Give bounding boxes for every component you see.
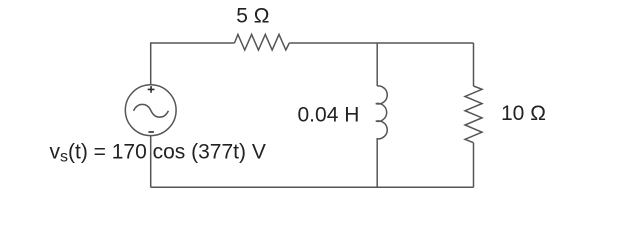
source sine wave: [134, 104, 169, 117]
resistor R2 (10 ohm) vertical zigzag: [465, 86, 482, 143]
svg-text:5 Ω: 5 Ω: [236, 5, 269, 28]
svg-text:10 Ω: 10 Ω: [501, 102, 546, 125]
wire right vertical lower: [473, 143, 475, 188]
wire middle branch lower: [376, 140, 378, 187]
inductor L1 (0.04 H) coil: [376, 86, 387, 140]
wire right vertical upper: [473, 43, 475, 86]
source plus sign: [148, 86, 155, 93]
source minus sign: [148, 131, 154, 133]
wire top-right segment: [289, 42, 473, 44]
svg-text:0.04 H: 0.04 H: [298, 103, 360, 126]
svg-text:vs(t) = 170 cos (377t) V: vs(t) = 170 cos (377t) V: [50, 140, 266, 165]
resistor R1 (5 ohm) zigzag: [235, 34, 290, 50]
wire bottom: [151, 186, 474, 188]
wire left vertical upper: [150, 42, 152, 85]
wire left vertical lower: [150, 135, 152, 187]
wire top-left segment: [151, 42, 235, 44]
source VS circle: [125, 85, 176, 136]
wire middle branch upper: [376, 43, 378, 86]
